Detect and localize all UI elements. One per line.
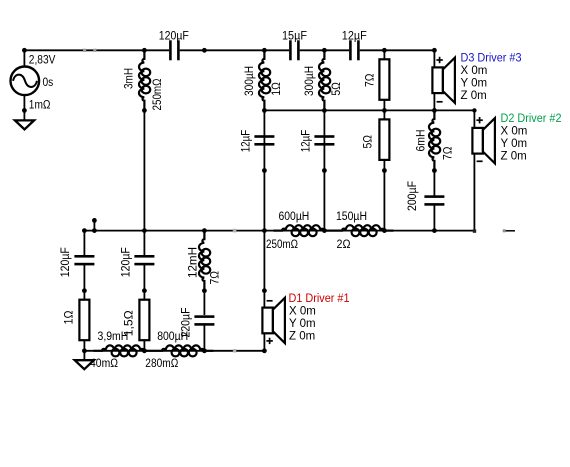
svg-text:D1 Driver #1: D1 Driver #1 xyxy=(289,293,350,305)
svg-text:Z 0m: Z 0m xyxy=(501,151,527,163)
junction dots bottom rail xyxy=(82,348,267,353)
label C120uF bottom-1 xyxy=(60,247,72,277)
svg-text:5Ω: 5Ω xyxy=(331,82,343,96)
svg-text:1Ω: 1Ω xyxy=(271,82,283,96)
label R7ohm top xyxy=(364,73,376,87)
junction dots lower node row xyxy=(82,288,267,293)
label V1 voltage xyxy=(29,54,56,66)
svg-text:280mΩ: 280mΩ xyxy=(145,358,178,370)
svg-text:3mH: 3mH xyxy=(123,68,135,89)
label C12uF mid-2 xyxy=(301,130,313,153)
wire node A3 to low rail xyxy=(383,171,385,231)
label L600uH value xyxy=(279,211,310,223)
gray mark output stub xyxy=(503,229,506,232)
label D3 Y xyxy=(461,78,488,90)
inductor L300uH-1 xyxy=(259,50,270,110)
svg-text:800µH: 800µH xyxy=(157,331,188,343)
label R1.5ohm xyxy=(124,310,136,336)
wire top rail segment V1 to C120uF xyxy=(24,49,169,51)
svg-text:X 0m: X 0m xyxy=(501,126,528,138)
svg-text:6mH: 6mH xyxy=(416,130,428,152)
capacitor C120uF bottom-1 xyxy=(74,255,94,265)
svg-text:12µF: 12µF xyxy=(301,130,313,153)
speaker D3 xyxy=(432,58,455,103)
label R5ohm xyxy=(363,135,375,149)
inductor L800uH xyxy=(153,345,213,356)
ground G2 bottom-left xyxy=(75,360,94,369)
corner mark D2 bottom xyxy=(473,229,476,232)
label L800uH value xyxy=(157,331,188,343)
svg-text:2,83V: 2,83V xyxy=(29,54,56,66)
svg-text:7Ω: 7Ω xyxy=(210,271,222,285)
label L12mH value xyxy=(188,247,200,278)
node stub near input tap xyxy=(93,220,95,230)
label C120uF bottom-2 xyxy=(121,247,133,277)
wire C12uF-2 column xyxy=(323,110,325,170)
svg-text:1Ω: 1Ω xyxy=(63,310,75,324)
label D2 Z xyxy=(501,151,527,163)
label L300uH-2 Rser xyxy=(331,82,343,96)
wire R1ohm to bottom rail xyxy=(83,340,85,351)
wire low rail to D1 minus xyxy=(263,231,265,308)
capacitor C120uF bottom-2 xyxy=(134,255,154,265)
label D2 X xyxy=(501,126,528,138)
gray wire mark low rail xyxy=(233,229,237,233)
svg-text:12µF: 12µF xyxy=(241,130,253,153)
ground G1 under source xyxy=(15,120,34,129)
capacitor C12uF mid-2 xyxy=(314,135,334,145)
gray wire mark bottom rail xyxy=(233,349,236,352)
label D3 title xyxy=(461,52,522,64)
wire D2 minus to low rail xyxy=(473,154,475,231)
label D1 X xyxy=(289,305,316,317)
inductor L12mH xyxy=(199,231,210,291)
svg-text:D3 Driver #3: D3 Driver #3 xyxy=(461,52,522,64)
label L300uH-1 Rser xyxy=(271,82,283,96)
svg-text:250mΩ: 250mΩ xyxy=(266,239,298,251)
svg-text:Y 0m: Y 0m xyxy=(289,318,316,330)
junction dots top rail xyxy=(22,48,437,53)
wire mid rail L300u-1 to D2 corner xyxy=(264,109,474,111)
svg-text:120µF: 120µF xyxy=(60,247,72,277)
inductor L6mH xyxy=(429,110,440,170)
svg-text:1mΩ: 1mΩ xyxy=(29,99,51,111)
junction dot under V1 xyxy=(22,108,27,113)
wire R7 to R5 xyxy=(383,99,385,120)
label L3mH value xyxy=(123,68,135,89)
wire bottom rail xyxy=(84,350,264,352)
label D2 plus xyxy=(476,117,482,123)
wire node A4 to C200uF xyxy=(433,171,435,197)
label D3 minus xyxy=(437,101,443,103)
svg-text:5Ω: 5Ω xyxy=(363,135,375,149)
capacitor C200uF xyxy=(424,195,444,205)
inductor L150uH xyxy=(333,225,393,236)
svg-text:Y 0m: Y 0m xyxy=(501,138,528,150)
svg-text:120µF: 120µF xyxy=(121,247,133,277)
wire C120uF-b2 column xyxy=(143,231,145,255)
capacitor C12uF mid-1 xyxy=(254,135,274,145)
wire D3 minus to mid rail xyxy=(433,93,435,110)
wire C200uF to low rail xyxy=(433,205,435,231)
svg-text:X 0m: X 0m xyxy=(461,65,488,77)
wire C12uF-1 column xyxy=(263,110,265,170)
svg-text:0s: 0s xyxy=(43,77,54,89)
inductor L600uH xyxy=(273,225,333,236)
svg-text:12mH: 12mH xyxy=(188,247,200,278)
label D3 X xyxy=(461,65,488,77)
label C200uF xyxy=(407,181,419,211)
wire output stub xyxy=(504,230,515,232)
label C12uF mid-1 xyxy=(241,130,253,153)
svg-text:15µF: 15µF xyxy=(282,30,307,42)
voltage source V1 circle with sine xyxy=(10,67,39,96)
label C15uF xyxy=(282,30,307,42)
label D1 title xyxy=(289,293,350,305)
label L300uH-2 value xyxy=(304,66,316,96)
svg-text:120µF: 120µF xyxy=(159,30,189,42)
wire R7 top lead xyxy=(383,50,385,60)
label V1 delay xyxy=(43,77,54,89)
label D3 Z xyxy=(461,90,487,102)
label L3.9mH Rser xyxy=(90,358,118,370)
svg-text:Y 0m: Y 0m xyxy=(461,78,488,90)
svg-text:2Ω: 2Ω xyxy=(337,239,351,251)
wire C120uF-b2 to R1.5ohm xyxy=(143,265,145,300)
label D1 plus xyxy=(266,338,272,344)
label D2 Y xyxy=(501,138,528,150)
label D3 plus xyxy=(436,57,442,63)
svg-text:X 0m: X 0m xyxy=(289,305,316,317)
junction dots mid rail xyxy=(142,108,477,113)
wire R5 to node A3 xyxy=(383,159,385,171)
wire top rail corner to D3 plus xyxy=(433,50,435,67)
label L12mH Rser xyxy=(210,271,222,285)
wire V1 top lead xyxy=(23,50,25,66)
label D2 minus xyxy=(477,160,483,162)
wire C120uF-b1 to R1ohm xyxy=(83,265,85,300)
wire top rail segment C120uF to C15uF xyxy=(180,49,289,51)
wire low rail left end to D2 bottom xyxy=(84,230,474,232)
svg-text:3,9mH: 3,9mH xyxy=(98,331,129,343)
node input tap dot xyxy=(92,218,97,223)
wire D1 plus to bottom rail xyxy=(263,333,265,351)
label L6mH value xyxy=(416,130,428,152)
resistor R7ohm top xyxy=(379,59,389,100)
label C12uF top xyxy=(342,30,367,42)
wire mid rail corner to D2 plus xyxy=(473,110,475,128)
inductor L3.9mH xyxy=(93,345,153,356)
label C220uF xyxy=(180,308,192,338)
capacitor C120uF top xyxy=(169,40,180,60)
label L600uH Rser xyxy=(266,239,298,251)
svg-text:Z 0m: Z 0m xyxy=(461,90,487,102)
wire node A1 to low rail xyxy=(263,171,265,231)
speaker D2 xyxy=(472,118,495,163)
label V1 impedance xyxy=(29,99,51,111)
svg-text:300µH: 300µH xyxy=(304,66,316,96)
gray wire marks top rail xyxy=(83,49,96,52)
svg-text:Z 0m: Z 0m xyxy=(289,330,315,342)
svg-text:D2 Driver #2: D2 Driver #2 xyxy=(501,113,562,125)
label L800uH Rser xyxy=(145,358,178,370)
svg-text:600µH: 600µH xyxy=(279,211,310,223)
svg-text:300µH: 300µH xyxy=(244,66,256,96)
label L3.9mH value xyxy=(98,331,129,343)
wire ground stub lower xyxy=(83,351,85,361)
inductor L300uH-2 xyxy=(319,50,330,110)
resistor R5ohm xyxy=(379,119,389,159)
label D1 minus xyxy=(267,300,273,302)
label R1ohm xyxy=(63,310,75,324)
junction dots node row A xyxy=(262,168,437,173)
wire top rail segment C12uF to D3 corner xyxy=(360,49,435,51)
resistor R1.5ohm xyxy=(139,300,149,341)
label D2 title xyxy=(501,113,562,125)
wire C220uF to bottom rail xyxy=(203,325,205,351)
wire L12mH bottom to C220uF xyxy=(203,291,205,315)
capacitor C15uF xyxy=(289,40,300,60)
capacitor C220uF xyxy=(194,315,214,325)
label L300uH-1 value xyxy=(244,66,256,96)
svg-text:7Ω: 7Ω xyxy=(443,146,455,160)
svg-text:7Ω: 7Ω xyxy=(364,73,376,87)
inductor L3mH xyxy=(139,50,150,110)
svg-text:200µF: 200µF xyxy=(407,181,419,211)
svg-text:12µF: 12µF xyxy=(342,30,367,42)
svg-text:150µH: 150µH xyxy=(336,211,367,223)
wire C120uF-b1 column xyxy=(83,231,85,255)
label D1 Z xyxy=(289,330,315,342)
resistor R1ohm xyxy=(79,300,89,341)
svg-text:250mΩ: 250mΩ xyxy=(152,78,164,110)
junction dots low rail xyxy=(82,228,437,233)
label D1 Y xyxy=(289,318,316,330)
speaker D1 xyxy=(262,298,285,343)
label L150uH value xyxy=(336,211,367,223)
label L150uH Rser xyxy=(337,239,351,251)
label L3mH Rser xyxy=(152,78,164,110)
capacitor C12uF top xyxy=(349,40,360,60)
wire L3mH bottom to low rail xyxy=(143,110,145,230)
label C120uF top xyxy=(159,30,189,42)
label L6mH Rser xyxy=(443,146,455,160)
wire V1 bottom lead to ground xyxy=(23,95,25,121)
wire top rail segment C15uF to C12uF xyxy=(300,49,349,51)
wire node A2 to low rail xyxy=(323,171,325,231)
wire R1.5ohm to bottom rail xyxy=(143,340,145,351)
